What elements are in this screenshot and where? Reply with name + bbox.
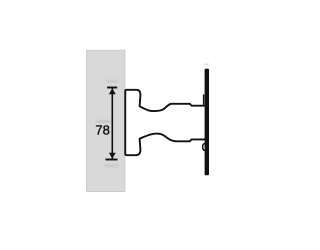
svg-text:78: 78 <box>95 122 109 137</box>
ghost artifact above plate top <box>204 63 209 65</box>
dimension arrowhead top <box>109 88 116 94</box>
dimension top tick <box>107 87 117 89</box>
dimension bottom tick <box>106 159 118 161</box>
mounting plate (vertical bar) <box>205 69 209 176</box>
wall section (gray strip) <box>87 50 125 191</box>
ghost artifact above dimension text <box>96 120 110 123</box>
dimension line <box>111 88 113 158</box>
ghost artifact above top tick <box>107 80 118 83</box>
dimension arrowhead bottom <box>109 153 116 159</box>
ghost artifact below bottom tick <box>105 164 119 167</box>
spindle tab at plate (top) <box>203 94 205 105</box>
screw detail at plate (bottom) <box>203 144 207 151</box>
knob profile outline <box>125 90 205 155</box>
